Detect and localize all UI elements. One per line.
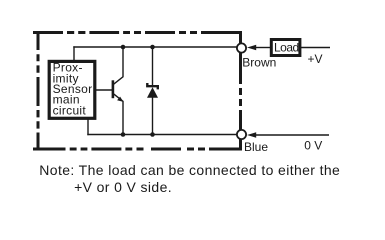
terminal Brown output node [237,43,246,52]
svg-text:Blue: Blue [244,140,268,154]
transistor Q1 collector lead [114,46,124,84]
transistor Q1 emitter lead [114,94,124,135]
arrow into brown terminal [247,45,256,51]
junction dot collector to top rail [121,45,126,50]
sensor enclosure dashed border right side between terminals [239,53,242,131]
sensor enclosure dashed border left side [37,31,40,151]
svg-text:Note: The load can be connecte: Note: The load can be connected to eithe… [39,162,340,178]
sensor enclosure dashed border right side lower segment [239,140,242,151]
wire from 0V supply to blue terminal [254,134,329,136]
zener diode D1 anode triangle [147,87,158,98]
zener diode D1 cathode bar [147,83,158,89]
wire from main circuit box top to top rail [73,46,75,60]
svg-text:Brown: Brown [242,56,276,70]
wire zener diode anode to bottom rail [152,97,154,135]
sensor enclosure dashed border top side [33,31,242,34]
transistor Q1 emitter arrow [117,97,123,102]
transistor Q1 base bar [112,80,115,98]
wire zener diode cathode to top rail [152,46,154,87]
junction dot zener to top rail [150,45,155,50]
load box [271,40,300,56]
arrow into blue terminal [247,132,256,138]
proximity sensor main circuit box [49,61,95,118]
sensor enclosure dashed border bottom side [33,148,242,151]
wire from load to brown terminal [254,47,270,49]
svg-text:+V or 0 V side.: +V or 0 V side. [74,179,172,195]
svg-text:Load: Load [274,41,299,55]
wire transistor base from main circuit box [95,89,113,91]
sensor enclosure dashed border right side upper segment [239,31,242,44]
wire from main circuit box bottom to bottom rail [87,118,89,135]
svg-text:circuit: circuit [53,103,87,117]
svg-text:+V: +V [308,52,323,66]
wire top rail +V inside sensor [73,46,237,48]
svg-text:0 V: 0 V [304,138,322,152]
wire bottom rail 0V inside sensor [87,134,237,136]
junction dot emitter to bottom rail [121,132,126,137]
terminal Blue output node [237,130,246,139]
junction dot zener to bottom rail [150,132,155,137]
wire load to +V supply [301,47,330,49]
